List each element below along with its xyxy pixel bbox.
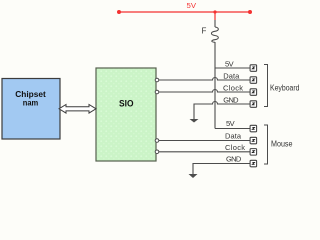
svg-text:Clock: Clock <box>225 143 245 152</box>
svg-text:5V: 5V <box>225 59 234 68</box>
svg-text:5V: 5V <box>226 119 235 128</box>
svg-text:GND: GND <box>223 95 239 104</box>
svg-text:Clock: Clock <box>223 83 243 92</box>
svg-text:5V: 5V <box>187 1 197 10</box>
svg-text:nam: nam <box>23 98 39 108</box>
svg-text:Mouse: Mouse <box>271 139 293 148</box>
svg-text:Data: Data <box>225 131 242 140</box>
svg-text:F: F <box>202 26 207 35</box>
svg-text:GND: GND <box>226 155 242 164</box>
svg-text:Data: Data <box>223 71 240 80</box>
svg-text:SIO: SIO <box>119 99 134 109</box>
svg-text:Keyboard: Keyboard <box>270 83 300 92</box>
